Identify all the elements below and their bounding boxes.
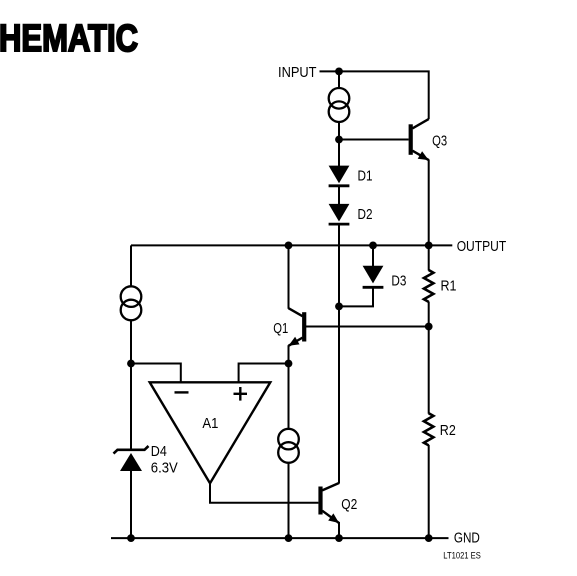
wire left rail from OUTPUT down to current source I2 — [130, 245, 132, 286]
svg-text:6.3V: 6.3V — [151, 460, 178, 477]
op-amp minus sign — [175, 391, 189, 393]
resistor R2 — [424, 413, 434, 445]
wire minus node down to zener D4 — [130, 364, 132, 450]
wire D2 cathode down across OUTPUT to D3 anode node — [338, 224, 340, 306]
junction D3 cathode on OUTPUT rail — [369, 242, 377, 250]
diode D2 — [329, 204, 350, 224]
svg-text:Q3: Q3 — [432, 132, 447, 149]
junction I3 on GND rail — [285, 534, 293, 542]
wire plus node down to current source I3 — [288, 364, 290, 429]
diode D3 — [363, 266, 384, 288]
junction D3 anode node dot — [335, 303, 343, 311]
op-amp plus sign — [234, 387, 248, 401]
wire Q2 emitter to GND rail — [338, 522, 340, 538]
wire OUTPUT rail — [131, 244, 452, 246]
wire GND rail — [111, 537, 449, 539]
svg-text:INPUT: INPUT — [278, 64, 317, 81]
wire R1 to R1/R2 junction — [428, 302, 430, 327]
junction D4 on GND rail — [127, 534, 135, 542]
zener diode D4 — [114, 446, 149, 471]
wire D3 cathode stub — [372, 245, 374, 266]
wire D3 anode to vertical rail — [339, 287, 373, 306]
svg-text:Q1: Q1 — [273, 320, 288, 337]
wire R2 to GND rail — [428, 445, 430, 538]
junction R2 on GND rail — [425, 534, 433, 542]
resistor R1 — [424, 270, 434, 302]
junction plus-input node dot — [285, 360, 293, 368]
svg-text:R2: R2 — [440, 422, 456, 439]
svg-text:GND: GND — [454, 530, 480, 547]
wire D3 node down to Q2 collector — [338, 306, 340, 483]
svg-text:HEMATIC: HEMATIC — [0, 18, 138, 60]
wire Q3 base — [339, 139, 409, 141]
wire Q1 base to R1/R2 junction — [306, 326, 429, 328]
diode D1 — [329, 166, 350, 186]
svg-text:LT1021 ES: LT1021 ES — [443, 551, 481, 561]
wire Q1 collector up to OUTPUT rail — [288, 245, 290, 308]
svg-text:D4: D4 — [151, 443, 167, 460]
transistor Q1 (NPN, mirrored) — [289, 308, 305, 346]
current source I3 (two overlapping circles) — [278, 429, 299, 463]
junction Q3 base node dot — [335, 136, 343, 144]
junction R1/R2/Q1-base dot — [425, 323, 433, 331]
wire Q3 base node down to D1 — [338, 140, 340, 167]
junction minus-input node dot — [127, 360, 135, 368]
wire D1 to D2 — [338, 186, 340, 204]
wire op-amp output to Q2 base — [210, 483, 318, 502]
wire plus-input node to op-amp non-inverting input — [239, 364, 289, 383]
junction R1 top on OUTPUT rail — [425, 242, 433, 250]
svg-text:A1: A1 — [202, 415, 218, 432]
wire INPUT lead to top-right corner — [320, 71, 429, 119]
wire D4 anode to GND rail — [130, 471, 132, 538]
svg-text:R1: R1 — [441, 278, 457, 295]
transistor Q3 (NPN) — [411, 119, 429, 160]
svg-text:D2: D2 — [358, 206, 373, 223]
wire OUTPUT to R1 — [428, 245, 430, 270]
wire R1/R2 junction down to R2 — [428, 327, 430, 414]
wire I3 down to GND rail — [288, 463, 290, 538]
svg-text:OUTPUT: OUTPUT — [457, 238, 507, 255]
svg-text:Q2: Q2 — [341, 496, 357, 513]
svg-text:D3: D3 — [391, 272, 406, 289]
current source I1 (two overlapping circles) — [329, 88, 350, 122]
current source I2 (two overlapping circles) — [121, 286, 142, 320]
junction INPUT node dot — [335, 68, 343, 76]
wire I1 to Q3 base node — [338, 122, 340, 140]
wire minus-input node to op-amp inverting input — [131, 364, 181, 383]
op-amp A1 triangle — [150, 382, 271, 483]
transistor Q2 (NPN) — [321, 483, 340, 523]
svg-text:D1: D1 — [358, 167, 373, 184]
wire INPUT dot to current source I1 — [338, 71, 340, 88]
junction Q2 emitter on GND rail — [335, 534, 343, 542]
wire Q1 emitter down to plus-input node — [288, 345, 290, 363]
junction Q1 collector on OUTPUT rail — [285, 242, 293, 250]
wire I2 down to minus-input node — [130, 320, 132, 363]
wire Q3 emitter down to OUTPUT line — [428, 160, 430, 246]
